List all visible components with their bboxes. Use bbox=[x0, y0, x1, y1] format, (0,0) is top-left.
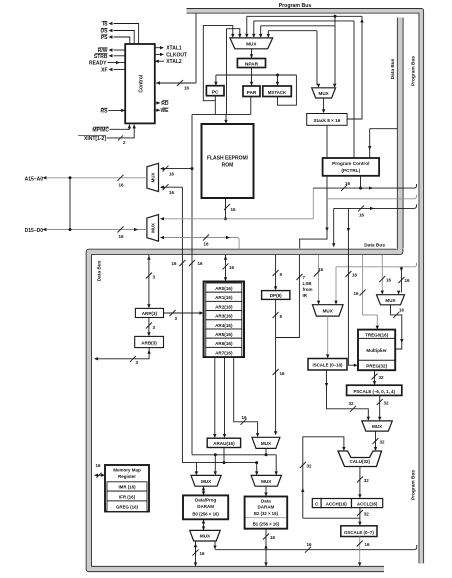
svg-text:ROM: ROM bbox=[222, 163, 234, 169]
svg-text:MUX: MUX bbox=[372, 424, 383, 429]
svg-text:RD: RD bbox=[161, 101, 169, 107]
svg-text:Data: Data bbox=[261, 498, 271, 503]
svg-text:Program Bus: Program Bus bbox=[411, 470, 417, 500]
svg-text:16: 16 bbox=[118, 234, 124, 239]
svg-text:ARAU(16): ARAU(16) bbox=[213, 441, 235, 446]
svg-text:16: 16 bbox=[200, 551, 206, 556]
svg-text:XINT[1-2]: XINT[1-2] bbox=[84, 136, 106, 142]
svg-text:Program Bus: Program Bus bbox=[279, 3, 312, 9]
svg-text:16: 16 bbox=[95, 463, 101, 468]
svg-text:READY: READY bbox=[89, 61, 107, 67]
svg-text:CALU(32): CALU(32) bbox=[350, 459, 371, 464]
svg-text:32: 32 bbox=[364, 478, 370, 483]
svg-text:MSTACK: MSTACK bbox=[268, 90, 287, 95]
svg-text:16: 16 bbox=[184, 85, 190, 90]
svg-text:DARAM: DARAM bbox=[258, 505, 275, 510]
svg-text:IFR (16): IFR (16) bbox=[119, 494, 136, 499]
svg-text:PSCALE (–6, 0, 1, 4): PSCALE (–6, 0, 1, 4) bbox=[353, 389, 395, 394]
svg-text:MUX: MUX bbox=[319, 91, 330, 96]
svg-text:MUX: MUX bbox=[261, 479, 272, 484]
svg-text:STRB: STRB bbox=[94, 54, 108, 60]
svg-text:16: 16 bbox=[169, 190, 175, 195]
svg-text:16: 16 bbox=[306, 542, 312, 547]
svg-text:AR1(16): AR1(16) bbox=[215, 295, 233, 300]
svg-text:Memory Map: Memory Map bbox=[113, 468, 141, 473]
svg-text:AR2(16): AR2(16) bbox=[215, 304, 233, 309]
svg-text:FLASH EEPROM/: FLASH EEPROM/ bbox=[207, 156, 249, 162]
svg-text:GREG (16): GREG (16) bbox=[116, 505, 138, 510]
svg-text:AR7(16): AR7(16) bbox=[215, 350, 233, 355]
svg-text:XTAL2: XTAL2 bbox=[166, 59, 182, 65]
svg-text:PS: PS bbox=[101, 35, 108, 41]
svg-text:16: 16 bbox=[118, 183, 124, 188]
svg-text:ARB(3): ARB(3) bbox=[141, 340, 157, 345]
svg-text:XF: XF bbox=[101, 68, 107, 74]
svg-text:PAR: PAR bbox=[247, 90, 257, 96]
svg-text:16: 16 bbox=[280, 371, 286, 376]
svg-text:32: 32 bbox=[307, 464, 313, 469]
svg-text:MUX: MUX bbox=[200, 534, 211, 539]
svg-text:16: 16 bbox=[399, 308, 405, 313]
svg-text:16: 16 bbox=[231, 207, 237, 212]
svg-text:16: 16 bbox=[353, 291, 359, 296]
svg-text:AR0(16): AR0(16) bbox=[215, 286, 233, 291]
svg-text:WE: WE bbox=[160, 108, 169, 114]
svg-text:B1 (256 × 16): B1 (256 × 16) bbox=[253, 522, 280, 527]
svg-text:16: 16 bbox=[169, 172, 175, 177]
svg-text:Control: Control bbox=[139, 74, 145, 92]
svg-text:Data/Prog: Data/Prog bbox=[195, 498, 217, 503]
svg-text:Register: Register bbox=[118, 474, 136, 479]
svg-text:AR3(16): AR3(16) bbox=[215, 314, 233, 319]
svg-text:MP/MC: MP/MC bbox=[92, 127, 109, 133]
svg-text:MUX: MUX bbox=[151, 223, 156, 233]
svg-text:AR4(16): AR4(16) bbox=[215, 323, 233, 328]
svg-text:PREG(32): PREG(32) bbox=[366, 364, 387, 369]
svg-text:Program Control: Program Control bbox=[332, 161, 369, 166]
svg-text:Multiplier: Multiplier bbox=[366, 348, 387, 353]
svg-text:16: 16 bbox=[345, 181, 351, 186]
svg-text:RS: RS bbox=[101, 108, 109, 114]
svg-text:16: 16 bbox=[318, 267, 324, 272]
svg-text:MUX: MUX bbox=[261, 441, 272, 446]
svg-text:Data Bus: Data Bus bbox=[97, 260, 103, 281]
svg-text:16: 16 bbox=[198, 261, 204, 266]
svg-text:MUX: MUX bbox=[201, 479, 212, 484]
svg-text:LSB: LSB bbox=[303, 281, 313, 286]
svg-text:(PCTRL): (PCTRL) bbox=[341, 168, 360, 173]
svg-text:TREG0(16): TREG0(16) bbox=[365, 333, 389, 338]
svg-text:ACCL(16): ACCL(16) bbox=[357, 501, 378, 506]
svg-text:IR: IR bbox=[303, 293, 308, 298]
svg-text:MUX: MUX bbox=[246, 41, 257, 46]
svg-text:AR5(16): AR5(16) bbox=[215, 332, 233, 337]
svg-text:ISCALE (0–16): ISCALE (0–16) bbox=[312, 362, 343, 367]
svg-text:IS: IS bbox=[103, 22, 108, 28]
svg-text:16: 16 bbox=[352, 273, 358, 278]
svg-text:DS: DS bbox=[101, 29, 109, 35]
svg-text:Stack 8 × 16: Stack 8 × 16 bbox=[313, 118, 340, 123]
svg-text:CLKOUT: CLKOUT bbox=[166, 52, 187, 58]
svg-text:B2 (32 × 16): B2 (32 × 16) bbox=[254, 511, 279, 516]
svg-text:16: 16 bbox=[241, 415, 247, 420]
svg-text:MUX: MUX bbox=[151, 173, 156, 183]
svg-text:NPAR: NPAR bbox=[245, 61, 259, 67]
svg-text:from: from bbox=[303, 287, 313, 292]
svg-text:16: 16 bbox=[405, 278, 411, 283]
svg-text:Data Bus: Data Bus bbox=[390, 58, 396, 79]
svg-text:IMR (16): IMR (16) bbox=[118, 485, 136, 490]
svg-text:ARP(3): ARP(3) bbox=[142, 311, 158, 316]
svg-text:32: 32 bbox=[384, 401, 390, 406]
svg-text:XTAL1: XTAL1 bbox=[166, 46, 182, 52]
svg-text:A15–A0: A15–A0 bbox=[25, 176, 44, 182]
svg-text:16: 16 bbox=[365, 542, 371, 547]
svg-text:32: 32 bbox=[364, 512, 370, 517]
svg-text:AR6(16): AR6(16) bbox=[215, 341, 233, 346]
svg-text:16: 16 bbox=[203, 242, 209, 247]
svg-text:MUX: MUX bbox=[323, 308, 334, 313]
svg-text:ACCH(16): ACCH(16) bbox=[326, 501, 348, 506]
svg-text:DARAM: DARAM bbox=[197, 504, 214, 509]
svg-text:16: 16 bbox=[359, 213, 365, 218]
svg-text:32: 32 bbox=[348, 401, 354, 406]
svg-text:16: 16 bbox=[386, 278, 392, 283]
svg-text:D15–D0: D15–D0 bbox=[25, 228, 44, 234]
svg-text:32: 32 bbox=[380, 440, 386, 445]
svg-text:OSCALE (0–7): OSCALE (0–7) bbox=[344, 530, 374, 535]
svg-text:PC: PC bbox=[212, 90, 219, 96]
svg-text:DP(9): DP(9) bbox=[270, 293, 282, 298]
svg-text:16: 16 bbox=[229, 265, 235, 270]
svg-text:Data Bus: Data Bus bbox=[364, 242, 385, 248]
svg-text:B0 (256 × 16): B0 (256 × 16) bbox=[192, 512, 219, 517]
svg-text:32: 32 bbox=[379, 375, 385, 380]
svg-text:MUX: MUX bbox=[385, 298, 396, 303]
svg-text:16: 16 bbox=[171, 261, 177, 266]
svg-text:Program Bus: Program Bus bbox=[411, 56, 417, 86]
svg-text:16: 16 bbox=[270, 535, 276, 540]
